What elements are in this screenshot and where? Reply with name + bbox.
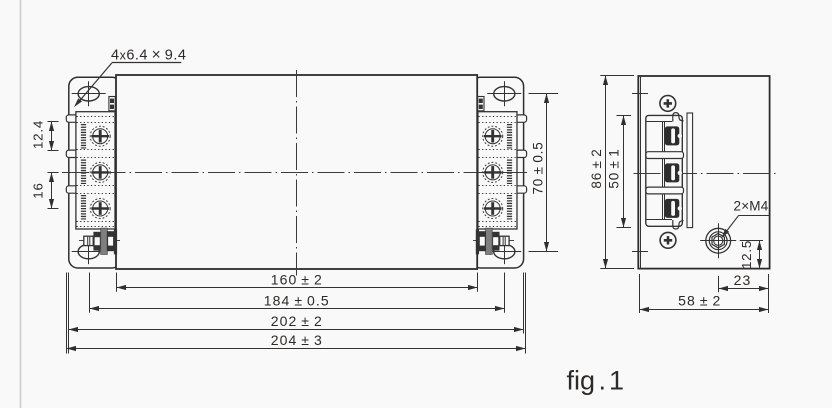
side view bottom screw [660, 232, 676, 248]
horizontal centerline left view [62, 172, 528, 174]
dim 12.5 [740, 241, 763, 269]
left body edge clip [109, 97, 115, 111]
left terminal block body [76, 112, 115, 229]
left block knurl strips [81, 124, 86, 220]
dim 70±0.5 [529, 94, 559, 252]
left block dotted internal lines [77, 117, 116, 227]
dim 12.4 [48, 122, 59, 151]
right terminal screw 2 [483, 162, 503, 182]
svg-text:2×M4: 2×M4 [734, 199, 769, 214]
side view separator bar 1 [646, 152, 684, 159]
svg-text:204 ± 3: 204 ± 3 [271, 332, 323, 348]
label 4x6.4x9.4 [74, 47, 186, 108]
svg-text:12.5: 12.5 [739, 240, 754, 269]
side view terminal 1 [665, 126, 682, 145]
side view mounting hole tick bottom [632, 251, 648, 253]
dim 86±2 [600, 76, 634, 269]
svg-text:fig.1: fig.1 [567, 366, 625, 396]
right block knurl strips [507, 124, 512, 220]
right terminal screw 3 [483, 199, 503, 219]
dim 23 [719, 274, 769, 313]
right ground stud assembly [473, 228, 514, 254]
M4 hole [700, 223, 736, 258]
svg-text:58 ± 2: 58 ± 2 [678, 293, 721, 309]
right terminal block body [478, 112, 517, 229]
left ground stud assembly [79, 228, 120, 254]
2xM4 label [722, 199, 770, 239]
side view terminal 3 [665, 199, 682, 218]
page edge line [20, 0, 22, 408]
svg-text:184 ± 0.5: 184 ± 0.5 [264, 292, 330, 308]
side view top screw [660, 96, 676, 112]
mounting slot top-left [72, 81, 106, 106]
dim 58±2 [640, 274, 769, 313]
right block dotted internal lines [479, 117, 518, 227]
dim 202±2 [69, 273, 524, 354]
side view terminal bracket [646, 113, 684, 229]
mounting slot bottom-left [72, 239, 106, 264]
svg-text:70 ± 0.5: 70 ± 0.5 [531, 142, 546, 195]
left terminal block tabs [66, 115, 80, 193]
left terminal screw 1 [90, 126, 110, 146]
side view mounting hole tick top [632, 93, 648, 95]
filter body outline [116, 75, 477, 269]
side view centerline [634, 173, 778, 175]
dim 184±0.5 [90, 273, 505, 313]
svg-text:4x6.4 × 9.4: 4x6.4 × 9.4 [111, 47, 186, 64]
vertical centerline [296, 70, 298, 276]
dim 50±1 [617, 116, 632, 228]
dim 160±2 [117, 273, 478, 292]
dim 16 [48, 173, 59, 209]
side view separator bar 2 [646, 187, 684, 194]
left terminal screw 3 [90, 199, 110, 219]
left terminal screw 2 [90, 162, 110, 182]
side view body [638, 76, 769, 269]
svg-text:50 ± 1: 50 ± 1 [607, 148, 622, 188]
mounting slot top-right [487, 81, 521, 106]
svg-text:202 ± 2: 202 ± 2 [271, 313, 323, 329]
svg-text:23: 23 [734, 272, 752, 288]
side view flange line [640, 76, 642, 269]
right body edge clip [478, 97, 484, 111]
side view DIN plate [687, 113, 693, 228]
svg-text:16: 16 [30, 182, 45, 198]
dim 204±3 [67, 273, 526, 354]
right mounting flange [472, 77, 524, 268]
right terminal block tabs [513, 115, 527, 193]
mounting slot bottom-right [487, 239, 521, 264]
right terminal screw 1 [483, 126, 503, 146]
svg-text:160 ± 2: 160 ± 2 [271, 271, 323, 287]
side view terminal 2 [665, 163, 682, 182]
svg-text:12.4: 12.4 [30, 120, 45, 149]
svg-text:86 ± 2: 86 ± 2 [589, 148, 604, 188]
left mounting flange [69, 77, 121, 268]
